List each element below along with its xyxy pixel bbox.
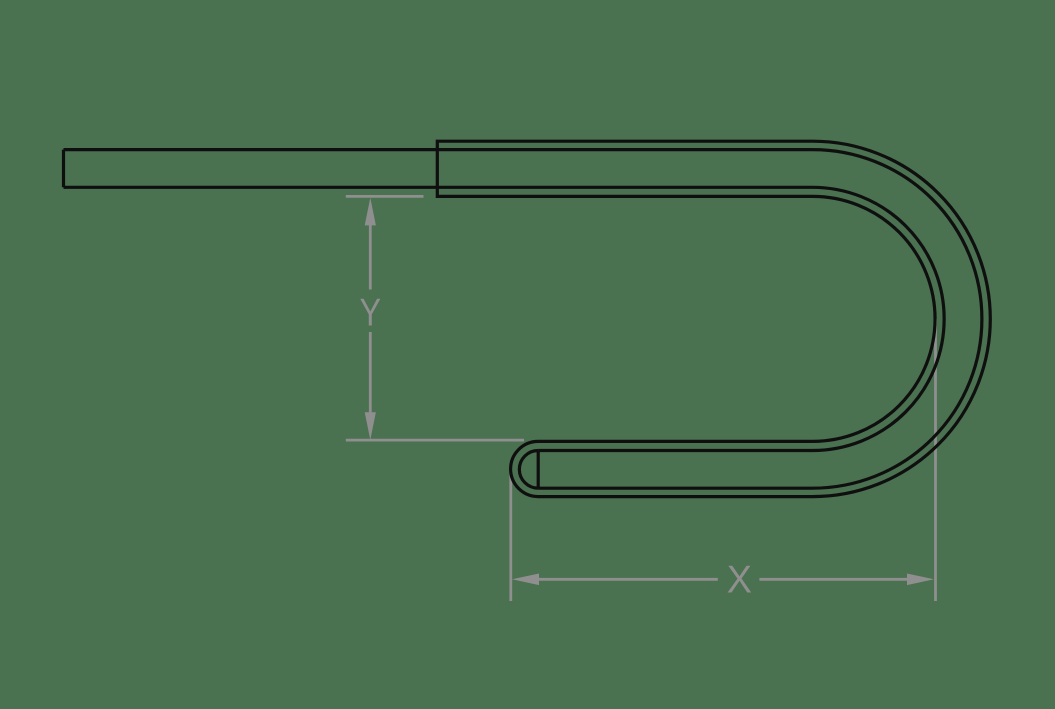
dimension Y bottom arrowhead	[365, 412, 376, 440]
dimension X right arrowhead	[907, 574, 934, 586]
dimension Y top extension line	[346, 195, 424, 198]
dimension X left arrowhead	[512, 574, 539, 586]
svg-text:X: X	[727, 558, 752, 602]
sleeve (outer hose) outline with J-bend and rounded end cap	[437, 141, 990, 496]
dimension X line shaft	[538, 578, 908, 581]
tube (inner hose) outline with J-bend	[64, 150, 982, 489]
dimension Y line shaft	[369, 222, 372, 414]
dimension X right extension line	[934, 319, 937, 601]
sleeve inner wall end cap	[519, 451, 538, 489]
svg-text:Y: Y	[360, 291, 382, 335]
dimension Y top arrowhead	[365, 198, 376, 226]
dimension X left extension line	[509, 469, 512, 601]
dimension Y bottom extension line	[346, 439, 524, 442]
